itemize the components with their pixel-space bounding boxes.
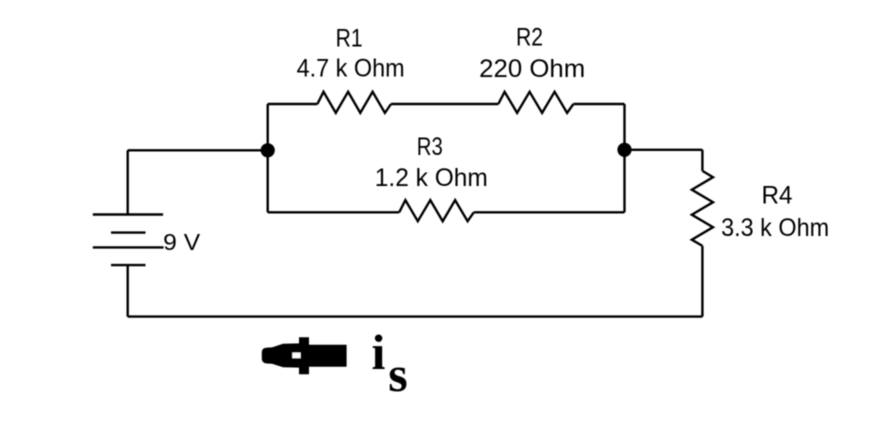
wire: node B to R4 top corner	[625, 149, 703, 151]
battery V1 9V plates	[93, 215, 164, 266]
current direction arrow (points left) for source current	[262, 337, 347, 374]
wire: right vertical of parallel block	[623, 104, 625, 212]
svg-text:s: s	[388, 346, 407, 402]
wire: battery top vertical	[126, 150, 128, 214]
svg-text:220 Ohm: 220 Ohm	[479, 55, 585, 83]
svg-text:1.2 k Ohm: 1.2 k Ohm	[375, 164, 488, 192]
svg-text:R2: R2	[516, 23, 543, 51]
svg-text:R3: R3	[417, 133, 443, 161]
svg-text:R4: R4	[762, 182, 793, 210]
wire: battery positive lead to node A	[128, 149, 268, 151]
wire: R4 bottom lead	[701, 246, 703, 317]
wire: R4 top lead	[701, 150, 703, 171]
svg-text:R1: R1	[336, 24, 363, 52]
node B (right junction dot)	[617, 143, 631, 157]
resistor R2	[498, 92, 573, 113]
wire: top rail middle segment (R1 to R2)	[391, 103, 498, 105]
resistor R1	[317, 92, 391, 113]
wire: battery bottom vertical	[126, 265, 128, 317]
wire: top rail left segment (node A to R1)	[268, 103, 318, 105]
resistor R4	[692, 171, 713, 246]
svg-text:3.3 k Ohm: 3.3 k Ohm	[721, 214, 829, 242]
resistor R3	[399, 200, 474, 221]
svg-text:4.7 k Ohm: 4.7 k Ohm	[297, 55, 405, 83]
svg-text:i: i	[372, 324, 386, 380]
wire: middle rail right segment (R3 to right vertical)	[474, 211, 625, 213]
wire: top rail right segment (R2 to right corner)	[573, 103, 624, 105]
wire: left vertical of parallel block	[267, 104, 269, 212]
wire: middle rail left segment (to R3)	[268, 211, 400, 213]
wire: bottom rail	[128, 315, 703, 317]
svg-text:9 V: 9 V	[163, 229, 201, 255]
white notch inside arrow	[292, 353, 300, 359]
node A (left junction dot)	[261, 143, 275, 157]
